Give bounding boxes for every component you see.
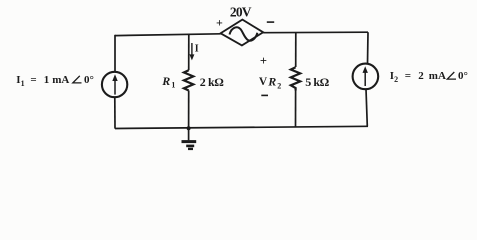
resistor R2 (zigzag) [291,67,300,90]
voltage source V 20V (diamond) [221,20,264,46]
svg-text:R: R [161,74,170,88]
svg-text:0°: 0° [458,70,468,82]
wire R2 branch lower [295,91,297,127]
current arrow I at R1 branch [191,43,193,57]
angle symbol [447,72,456,79]
polarity - of source [267,21,274,23]
svg-text:R: R [267,74,276,88]
wire top-right [263,31,368,34]
svg-text:2 kΩ: 2 kΩ [200,75,224,89]
resistor R1 (zigzag) [184,70,193,90]
wire R1 branch upper [188,34,190,70]
wire R2 branch upper [295,33,297,68]
wire left vertical upper [114,35,116,73]
svg-text:1: 1 [21,79,25,88]
svg-text:+: + [260,54,267,68]
svg-text:mA: mA [429,70,446,82]
ground [188,128,190,140]
svg-text:=: = [405,70,411,82]
svg-text:5 kΩ: 5 kΩ [305,75,329,89]
svg-text:2: 2 [277,81,281,90]
wire right vertical upper [367,32,370,64]
polarity - of VR2 [261,94,268,96]
wire right vertical lower [366,89,367,126]
svg-text:2: 2 [394,75,398,84]
svg-text:0°: 0° [84,74,94,86]
svg-text:+: + [216,16,223,30]
svg-text:1: 1 [44,74,50,86]
current source I1 [102,72,127,97]
svg-text:1: 1 [171,81,175,90]
sine wave inside source [230,27,258,40]
svg-text:V: V [259,76,268,88]
wire top-left [115,34,221,36]
wire left vertical lower [114,97,116,129]
svg-text:=: = [30,74,36,86]
wire R1 branch lower [188,91,190,129]
wire bottom [115,126,368,128]
junction dot (ground node) [187,126,191,130]
current source I2 [353,64,379,90]
svg-text:20V: 20V [230,5,252,20]
svg-text:2: 2 [418,70,424,82]
svg-text:mA: mA [52,74,69,86]
svg-text:I: I [195,44,199,55]
angle symbol [73,76,82,83]
